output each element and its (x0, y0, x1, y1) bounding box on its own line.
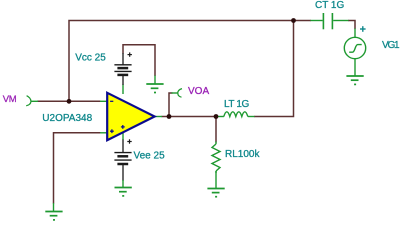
op-amp U2 supply plus marker (121, 125, 125, 129)
op-amp U2 bottom supply pin stub (122, 133, 124, 140)
svg-text:RL100k: RL100k (225, 149, 260, 160)
resistor RL 100k (212, 142, 220, 174)
op-amp U2 noninverting input plus marker (110, 129, 114, 133)
battery VP1 Vcc 25 (114, 53, 131, 85)
wire noninverting input to ground run (54, 133, 101, 204)
wire VM to inverting input (37, 100, 101, 102)
ground below VG1 (346, 59, 363, 85)
svg-text:VOA: VOA (188, 86, 209, 97)
wire inductor to right riser (254, 21, 294, 117)
junction at inverting input (67, 99, 72, 104)
ground at left noninverting input (45, 203, 62, 220)
op-amp U2 top supply pin stub (122, 85, 124, 95)
node VOA pin (172, 89, 183, 98)
wire feedback run: top horizontal and left vertical (69, 21, 311, 102)
ground below Vee battery (115, 180, 132, 196)
ground below Vcc battery (146, 76, 163, 93)
svg-text:LT 1G: LT 1G (224, 99, 249, 110)
node VM terminal pin (26, 96, 38, 106)
capacitor CT 1G (311, 13, 349, 29)
svg-text:U2OPA348: U2OPA348 (42, 113, 92, 124)
wire junction down to RL (215, 117, 217, 143)
inductor LT 1G (216, 112, 255, 117)
svg-text:VM: VM (3, 94, 17, 105)
battery VP2 Vee 25 (114, 140, 131, 182)
wire Vcc battery top loop to ground (123, 45, 155, 76)
junction at RL/LT node (214, 114, 219, 119)
svg-text:CT 1G: CT 1G (315, 0, 344, 11)
wire capacitor right elbow (348, 21, 355, 30)
op-amp U2 output pin stub (155, 116, 163, 118)
generator VG1 (344, 29, 365, 59)
op-amp U2 input pin stubs (100, 100, 108, 102)
battery VP2 plus marker (127, 139, 131, 143)
svg-text:Vcc 25: Vcc 25 (75, 52, 106, 63)
battery VP1 plus marker (128, 52, 132, 56)
op-amp U2 OPA348 triangle (107, 93, 154, 140)
junction at top feedback/capacitor node (291, 18, 296, 23)
op-amp U2 inverting input minus marker (110, 100, 113, 102)
wire opamp output (162, 116, 217, 118)
junction at VOA tap (167, 114, 172, 119)
ground below RL (207, 171, 224, 197)
generator VG1 plus marker (360, 26, 366, 32)
svg-text:Vee 25: Vee 25 (134, 151, 166, 162)
wire VOA tap (169, 93, 173, 117)
svg-text:VG1: VG1 (382, 40, 400, 51)
